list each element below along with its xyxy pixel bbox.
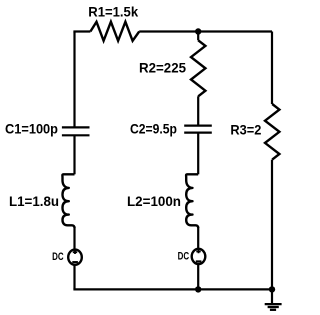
- wire C2 to L2: [197, 133, 199, 175]
- svg-text:C2=9.5p: C2=9.5p: [130, 122, 177, 137]
- battery V1 (DC source): [68, 250, 82, 265]
- wire R3 to ground node: [271, 160, 273, 290]
- wire R2 to C2: [197, 96, 199, 125]
- bottom node junction dot: [195, 286, 201, 292]
- label R1=1.5k: [88, 5, 138, 20]
- wire V2 to bottom node: [197, 265, 199, 290]
- label DC (V1): [52, 251, 64, 263]
- svg-text:L1=1.8u: L1=1.8u: [9, 194, 59, 209]
- resistor R3: [265, 104, 279, 160]
- bottom wire: [73, 288, 272, 290]
- node 2 junction dot: [195, 28, 201, 34]
- wire L2 to V2: [197, 227, 199, 248]
- ground node junction dot: [269, 286, 275, 292]
- svg-text:R3=2: R3=2: [230, 122, 261, 137]
- svg-text:C1=100p: C1=100p: [5, 122, 58, 137]
- resistor R1: [90, 22, 139, 41]
- capacitor C2: [184, 126, 212, 133]
- wire L1 to V1: [73, 227, 75, 249]
- ground: [265, 289, 282, 309]
- svg-text:L2=100n: L2=100n: [127, 194, 181, 209]
- wire top horizontal left (corner to R1): [73, 30, 90, 32]
- svg-text:R1=1.5k: R1=1.5k: [88, 5, 138, 20]
- resistor R2: [191, 40, 205, 96]
- label R3=2: [230, 122, 261, 137]
- capacitor C1: [62, 127, 90, 135]
- wire C1 to L1: [73, 135, 75, 174]
- wire node2 to R2: [197, 32, 199, 41]
- inductor L1: [62, 174, 74, 228]
- wire top horizontal right (R1 to node 2 to top-right corner): [139, 30, 272, 32]
- label L1=1.8u: [9, 194, 59, 209]
- label C2=9.5p: [130, 122, 177, 137]
- svg-text:R2=225: R2=225: [139, 61, 186, 76]
- svg-text:DC: DC: [178, 250, 190, 262]
- wire top-left vertical (node 1 to C1): [73, 32, 75, 128]
- label C1=100p: [5, 122, 58, 137]
- label L2=100n: [127, 194, 181, 209]
- battery V2 (DC source): [192, 249, 206, 264]
- label R2=225: [139, 61, 186, 76]
- svg-text:DC: DC: [52, 251, 64, 263]
- wire V1 to bottom wire: [73, 266, 75, 290]
- label DC (V2): [178, 250, 190, 262]
- inductor L2: [186, 174, 198, 228]
- wire top-right vertical (corner to R3): [271, 32, 273, 105]
